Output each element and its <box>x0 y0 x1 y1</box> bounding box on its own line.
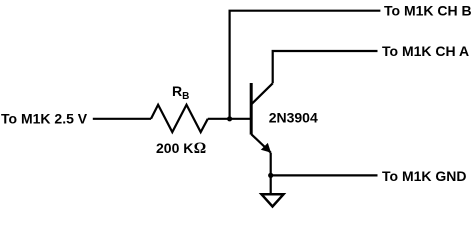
wire: emitter down to ground node <box>270 153 272 194</box>
transistor collector diagonal <box>251 83 272 104</box>
transistor emitter diagonal <box>251 134 270 152</box>
svg-text:To M1K CH A: To M1K CH A <box>382 43 469 59</box>
svg-text:200 K: 200 K <box>156 140 193 156</box>
svg-text:To M1K GND: To M1K GND <box>382 168 467 184</box>
node: base junction dot <box>227 116 232 121</box>
svg-text:2N3904: 2N3904 <box>269 109 318 125</box>
node: emitter/ground junction dot <box>268 173 273 178</box>
ground symbol triangle <box>262 194 284 206</box>
wire: collector to CH B (horizontal + vertical down to base node) <box>230 11 381 119</box>
resistor RB zigzag <box>151 105 208 132</box>
wire: resistor to transistor base <box>208 118 250 120</box>
svg-text:Ω: Ω <box>194 140 206 157</box>
wire: emitter node to GND label <box>271 174 378 176</box>
transistor emitter arrowhead <box>262 144 270 152</box>
svg-text:To M1K CH B: To M1K CH B <box>384 3 472 19</box>
transistor Q1 2N3904 base bar <box>250 83 253 135</box>
wire: base wire from 2.5V source to resistor <box>93 118 151 120</box>
svg-text:To M1K 2.5 V: To M1K 2.5 V <box>1 111 88 127</box>
wire: collector to CH A (horizontal + vertical down to collector) <box>273 51 378 83</box>
